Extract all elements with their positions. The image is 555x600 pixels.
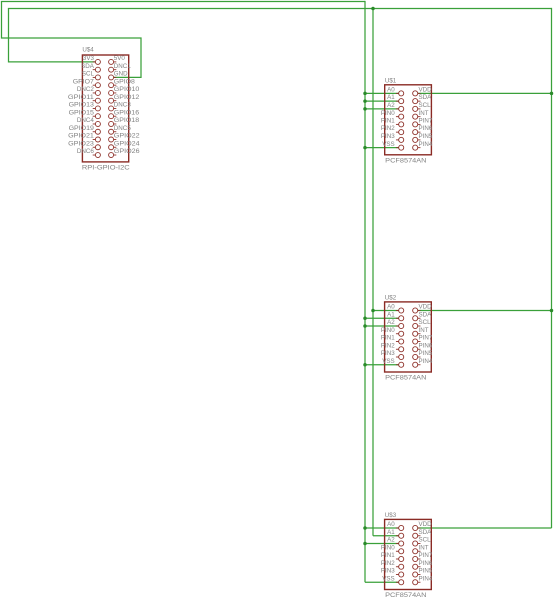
U$3 body rect <box>385 519 432 589</box>
junction U$3 A0/GND <box>363 526 367 530</box>
U$2 pin A0 (left row 1) <box>387 304 404 313</box>
junction U$2 A2/GND <box>363 324 367 328</box>
U$4 body rect <box>82 55 128 162</box>
U$3 pin PIN5 (right row 7) <box>413 568 433 577</box>
wire U$1 VDD to 3V3 bus <box>418 92 552 94</box>
svg-text:GND: GND <box>114 71 128 78</box>
U$4 pin GPIO11 (left row 6) <box>68 94 101 103</box>
wire U$2 A2 to GND bus <box>365 325 399 327</box>
U$3 pin PIN3 (left row 7) <box>381 568 404 577</box>
svg-text:A2: A2 <box>387 102 395 109</box>
svg-text:PIN4: PIN4 <box>419 575 433 582</box>
U$4 pin GPIO21 (left row 11) <box>68 133 100 142</box>
svg-text:A0: A0 <box>387 304 395 311</box>
junction U$3 A2/GND <box>363 542 367 546</box>
svg-text:GPIO13: GPIO13 <box>69 102 95 109</box>
svg-text:PIN0: PIN0 <box>381 544 395 551</box>
svg-text:DNC6: DNC6 <box>77 148 95 155</box>
U$4 pin SDA (left row 2) <box>81 63 100 72</box>
IC U$3 PCF8574AN <box>381 512 433 599</box>
U$1 pin PIN5 (right row 7) <box>413 133 433 142</box>
U$2 pin VDD (right row 1) <box>413 304 432 313</box>
svg-text:PIN0: PIN0 <box>381 327 395 334</box>
svg-text:PIN3: PIN3 <box>381 133 395 140</box>
svg-text:PIN0: PIN0 <box>381 110 395 117</box>
wire 3V3 net: right vertical bus x=551.5 <box>551 8 553 528</box>
junction 3V3 branch at top rail <box>371 7 375 11</box>
U$3 pin SCL (right row 3) <box>413 537 431 546</box>
svg-text:PIN6: PIN6 <box>419 125 433 132</box>
junction U$1 A1/GND <box>363 99 367 103</box>
svg-text:PCF8574AN: PCF8574AN <box>385 375 426 382</box>
U$4 pin GPIO15 (left row 8) <box>69 109 101 118</box>
svg-text:SCL: SCL <box>419 319 432 326</box>
U$4 pin GPIO26 (right row 13) <box>109 148 141 157</box>
svg-text:A1: A1 <box>387 311 395 318</box>
svg-text:5V0: 5V0 <box>114 55 126 62</box>
U$4 pin GPIO22 (right row 11) <box>109 133 141 142</box>
IC U$1 PCF8574AN <box>381 77 433 164</box>
junction U$2 VDD/3V3 <box>550 309 554 313</box>
U$3 pin PIN0 (left row 4) <box>381 544 404 553</box>
U$4 pin 3V3 (left row 1) <box>83 55 101 64</box>
U$1 pin PIN4 (right row 8) <box>413 141 433 150</box>
wire U$3 A0 to GND bus <box>365 527 399 529</box>
svg-text:PIN1: PIN1 <box>381 552 395 559</box>
svg-text:GPIO22: GPIO22 <box>114 133 140 140</box>
svg-text:GPIO23: GPIO23 <box>68 140 94 147</box>
svg-text:INT: INT <box>419 327 429 334</box>
U$1 pin A1 (left row 2) <box>387 94 404 104</box>
U$1 pin INT (right row 4) <box>413 110 429 119</box>
junction U$2 A0/3V3 <box>371 309 375 313</box>
svg-text:DNC4: DNC4 <box>77 117 95 124</box>
junction U$1 VSS/GND <box>363 146 367 150</box>
svg-text:RPI-GPIO-I2C: RPI-GPIO-I2C <box>82 165 130 172</box>
U$2 pin SDA (right row 2) <box>413 311 432 320</box>
U$4 pin DNC6 (left row 13) <box>77 148 101 157</box>
junction U$2 A1/GND <box>363 317 367 321</box>
svg-text:SDA: SDA <box>419 94 433 101</box>
U$2 pin SCL (right row 3) <box>413 319 431 328</box>
U$4 pin GPIO8 (right row 4) <box>109 78 136 87</box>
svg-text:PIN4: PIN4 <box>419 358 433 365</box>
svg-text:SCL: SCL <box>82 71 95 78</box>
U$4 pin GPIO23 (left row 12) <box>68 140 100 149</box>
wire 3V3 net: inner vertical branch x=373 <box>372 9 374 536</box>
svg-text:U$3: U$3 <box>385 512 397 519</box>
U$2 pin A1 (left row 2) <box>387 311 404 320</box>
U$2 pin PIN3 (left row 7) <box>381 350 404 359</box>
U$1 pin A2 (left row 3) <box>387 102 404 111</box>
U$1 pin PIN0 (left row 4) <box>381 110 404 119</box>
U$4 pin GPIO18 (right row 9) <box>109 117 140 126</box>
U$4 pin GPIO24 (right row 12) <box>109 140 141 149</box>
wire U$2 A0 to 3V3 bus <box>373 310 399 312</box>
svg-text:GPIO15: GPIO15 <box>69 109 95 116</box>
svg-text:INT: INT <box>419 110 429 117</box>
svg-text:A1: A1 <box>387 94 395 101</box>
svg-text:DNC5: DNC5 <box>114 125 132 132</box>
U$4 pin SCL (left row 3) <box>82 71 101 80</box>
U$2 body rect <box>385 302 432 372</box>
svg-text:PIN1: PIN1 <box>381 335 395 342</box>
svg-text:PIN3: PIN3 <box>381 568 395 575</box>
U$4 pin GPIO13 (left row 7) <box>69 102 101 111</box>
U$4 pin 5V0 (right row 1) <box>109 55 126 64</box>
svg-text:A2: A2 <box>387 319 395 326</box>
U$3 pin A2 (left row 3) <box>387 537 404 546</box>
svg-text:U$1: U$1 <box>385 77 397 84</box>
U$1 pin PIN3 (left row 7) <box>381 133 404 142</box>
U$1 pin A0 (left row 1) <box>387 87 404 96</box>
U$1 pin SDA (right row 2) <box>413 94 432 104</box>
svg-text:GPIO26: GPIO26 <box>114 148 140 155</box>
junction U$2 VSS/GND <box>363 363 367 367</box>
U$1 pin PIN6 (right row 6) <box>413 125 433 135</box>
svg-text:PIN7: PIN7 <box>419 335 433 342</box>
wire U$1 A1 to GND bus <box>365 100 399 102</box>
U$3 pin A1 (left row 2) <box>387 529 404 538</box>
U$3 pin PIN1 (left row 5) <box>381 552 404 561</box>
svg-text:PIN5: PIN5 <box>419 568 433 575</box>
wire U$1 VSS to GND bus <box>365 147 399 149</box>
svg-text:GPIO24: GPIO24 <box>114 140 140 147</box>
U$3 pin VSS (left row 8) <box>382 575 403 584</box>
U$4 pin GND (right row 3) <box>109 71 128 80</box>
U$4 pin GPIO16 (right row 8) <box>109 109 140 118</box>
wire U$3 A2 to GND bus <box>365 543 399 545</box>
U$2 pin PIN5 (right row 7) <box>413 350 433 359</box>
U$3 pin PIN6 (right row 6) <box>413 560 433 569</box>
U$2 pin A2 (left row 3) <box>387 319 404 328</box>
IC U$2 PCF8574AN <box>381 294 433 381</box>
U$2 pin PIN7 (right row 5) <box>413 335 433 344</box>
svg-text:PCF8574AN: PCF8574AN <box>385 592 426 599</box>
svg-text:DNC1: DNC1 <box>114 63 132 70</box>
U$4 pin GPIO12 (right row 6) <box>109 94 140 103</box>
svg-text:PIN6: PIN6 <box>419 342 433 349</box>
U$4 pin DNC3 (right row 7) <box>109 102 132 111</box>
U$3 pin PIN7 (right row 5) <box>413 552 433 561</box>
svg-text:A0: A0 <box>387 87 395 94</box>
U$4 pin DNC5 (right row 10) <box>109 125 132 134</box>
U$3 pin VDD (right row 1) <box>413 521 432 530</box>
svg-text:PIN5: PIN5 <box>419 133 433 140</box>
svg-text:GPIO12: GPIO12 <box>114 94 140 101</box>
svg-text:PIN6: PIN6 <box>419 560 433 567</box>
svg-text:GPIO18: GPIO18 <box>114 117 140 124</box>
svg-text:U$4: U$4 <box>82 47 94 54</box>
wire GND net: main vertical bus x=365 <box>364 1 366 582</box>
svg-text:PIN3: PIN3 <box>381 350 395 357</box>
U$2 pin PIN2 (left row 6) <box>381 342 404 351</box>
svg-text:A0: A0 <box>387 521 395 528</box>
U$2 pin PIN6 (right row 6) <box>413 342 433 351</box>
svg-text:VSS: VSS <box>382 575 394 582</box>
U$1 body rect <box>385 85 432 155</box>
U$2 pin PIN4 (right row 8) <box>413 358 433 367</box>
svg-text:PCF8574AN: PCF8574AN <box>385 157 426 164</box>
svg-text:GPIO10: GPIO10 <box>114 86 140 93</box>
svg-text:PIN2: PIN2 <box>381 342 395 349</box>
svg-text:VSS: VSS <box>382 358 394 365</box>
junction U$1 VDD/3V3 <box>550 92 554 96</box>
U$3 pin INT (right row 4) <box>413 544 429 553</box>
U$1 pin PIN7 (right row 5) <box>413 118 433 127</box>
svg-text:PIN1: PIN1 <box>381 118 395 125</box>
wire U$3 A1 to 3V3 bus <box>373 535 399 537</box>
svg-text:GPIO8: GPIO8 <box>114 78 136 85</box>
wire GND net: loop from U$4 GND pin to top-left corner <box>2 2 142 78</box>
svg-text:PIN7: PIN7 <box>419 552 433 559</box>
svg-text:PIN4: PIN4 <box>419 141 433 148</box>
wire GND net: top horizontal bus <box>1 1 365 3</box>
svg-text:GPIO21: GPIO21 <box>68 133 94 140</box>
svg-text:VDD: VDD <box>419 87 433 94</box>
U$3 pin PIN2 (left row 6) <box>381 560 404 569</box>
svg-text:SCL: SCL <box>419 102 432 109</box>
U$1 pin VDD (right row 1) <box>413 87 432 96</box>
junction U$1 A0/GND <box>363 92 367 96</box>
svg-text:INT: INT <box>419 544 429 551</box>
svg-text:PIN2: PIN2 <box>381 125 395 132</box>
wire U$2 VDD to 3V3 bus <box>418 310 552 312</box>
U$1 pin PIN2 (left row 6) <box>381 125 404 135</box>
wire U$1 A2 to GND bus <box>365 108 399 110</box>
svg-text:DNC3: DNC3 <box>114 102 132 109</box>
svg-text:SDA: SDA <box>81 63 95 70</box>
svg-text:VSS: VSS <box>382 141 394 148</box>
svg-text:PIN5: PIN5 <box>419 350 433 357</box>
U$4 pin DNC2 (left row 5) <box>77 86 101 95</box>
svg-text:GPIO16: GPIO16 <box>114 109 140 116</box>
U$1 pin SCL (right row 3) <box>413 102 431 111</box>
svg-text:U$2: U$2 <box>385 294 397 301</box>
wire U$3 VSS to GND bus <box>365 581 399 583</box>
U$2 pin PIN1 (left row 5) <box>381 335 404 344</box>
svg-text:SCL: SCL <box>419 537 432 544</box>
U$3 pin A0 (left row 1) <box>387 521 404 530</box>
svg-text:VDD: VDD <box>419 521 433 528</box>
IC U$4 RPI-GPIO-I2C <box>68 47 140 172</box>
junction U$1 A2/GND <box>363 107 367 111</box>
wire U$2 VSS to GND bus <box>365 364 399 366</box>
U$1 pin VSS (left row 8) <box>382 141 403 150</box>
svg-text:PIN2: PIN2 <box>381 560 395 567</box>
svg-text:GPIO11: GPIO11 <box>68 94 95 101</box>
svg-text:SDA: SDA <box>419 311 433 318</box>
svg-text:SDA: SDA <box>419 529 433 536</box>
U$3 pin SDA (right row 2) <box>413 529 432 538</box>
wire 3V3 net: from U$4 3V3 pin up to top rail <box>9 9 96 62</box>
U$2 pin VSS (left row 8) <box>382 358 403 367</box>
svg-text:GPIO7: GPIO7 <box>73 78 95 85</box>
svg-text:A1: A1 <box>387 529 395 536</box>
svg-text:DNC2: DNC2 <box>77 86 95 93</box>
U$4 pin DNC1 (right row 2) <box>109 63 132 72</box>
U$4 pin DNC4 (left row 9) <box>77 117 101 126</box>
U$3 pin PIN4 (right row 8) <box>413 575 433 584</box>
U$4 pin GPIO7 (left row 4) <box>73 78 101 87</box>
U$2 pin PIN0 (left row 4) <box>381 327 404 336</box>
wire 3V3 net: top horizontal rail <box>8 8 552 10</box>
wire U$1 A0 to GND bus <box>365 92 399 94</box>
svg-text:3V3: 3V3 <box>83 55 95 62</box>
svg-text:PIN7: PIN7 <box>419 118 433 125</box>
U$4 pin GPIO10 (right row 5) <box>109 86 140 95</box>
wire U$2 A1 to GND bus <box>365 317 399 319</box>
wire U$3 VDD to 3V3 bus <box>418 527 552 529</box>
svg-text:GPIO19: GPIO19 <box>69 125 95 132</box>
svg-text:A2: A2 <box>387 537 395 544</box>
U$4 pin GPIO19 (left row 10) <box>69 125 101 134</box>
U$2 pin INT (right row 4) <box>413 327 429 336</box>
svg-text:VDD: VDD <box>419 304 433 311</box>
U$1 pin PIN1 (left row 5) <box>381 118 404 127</box>
